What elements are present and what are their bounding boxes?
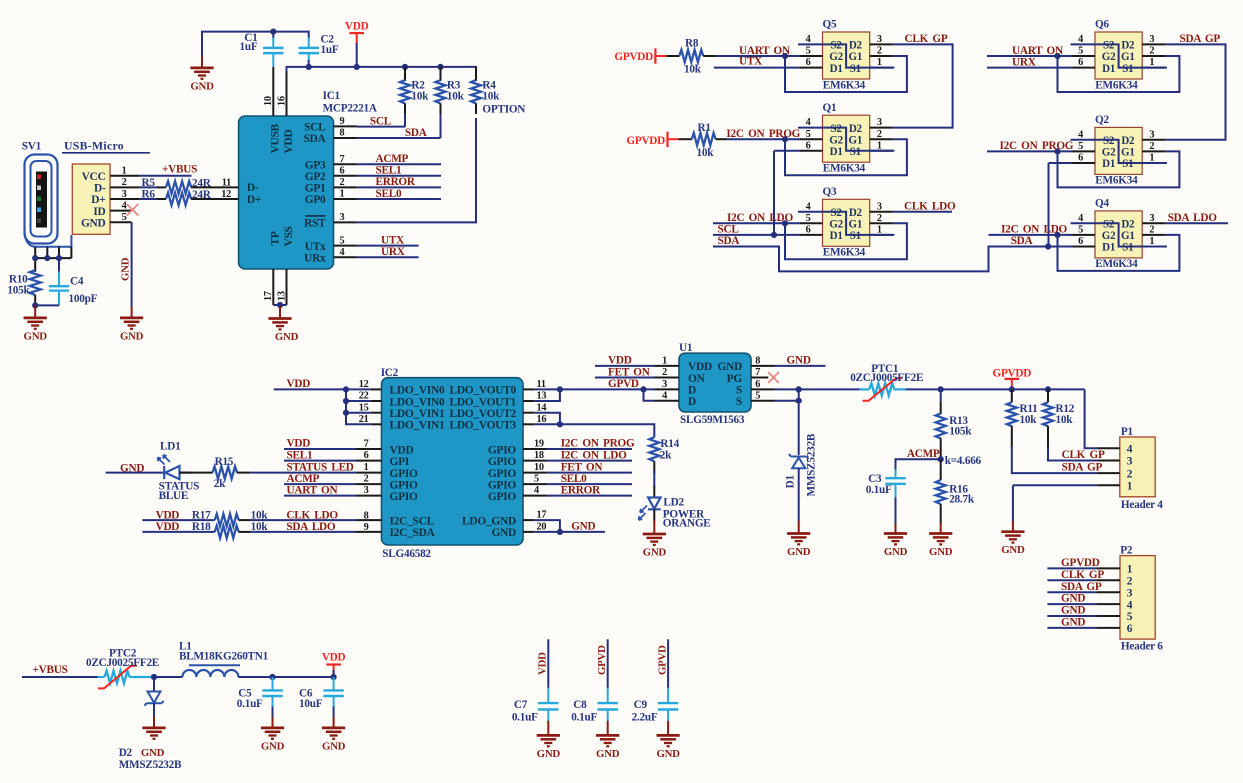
svg-text:24R: 24R	[192, 189, 212, 201]
svg-text:2: 2	[1149, 225, 1154, 236]
svg-text:SDA: SDA	[1011, 235, 1034, 247]
resistor R13	[936, 389, 973, 459]
svg-text:G2: G2	[829, 219, 843, 231]
svg-text:1: 1	[1127, 481, 1133, 493]
svg-text:11: 11	[537, 379, 546, 390]
svg-text:S1: S1	[1122, 158, 1133, 170]
wire RST to R4	[334, 118, 477, 223]
svg-text:VSS: VSS	[283, 226, 295, 246]
svg-text:S2: S2	[831, 40, 843, 52]
wire I2C ON PROG from IC2	[523, 438, 635, 450]
svg-text:LDO_VIN0: LDO_VIN0	[390, 385, 446, 397]
svg-text:UTX: UTX	[739, 56, 762, 68]
svg-text:BLUE: BLUE	[159, 490, 189, 502]
svg-text:I2C ON PROG: I2C ON PROG	[1000, 140, 1074, 152]
pin PG nc	[751, 367, 779, 383]
svg-text:P2: P2	[1120, 545, 1133, 557]
wire URX to Q6	[987, 57, 1073, 69]
wire Q6 gate tie	[1058, 56, 1180, 92]
svg-text:D1: D1	[1102, 158, 1115, 170]
node junction VIN 12	[343, 386, 349, 392]
svg-text:2k: 2k	[660, 450, 672, 462]
svg-text:Q2: Q2	[1095, 114, 1109, 126]
svg-text:6: 6	[1127, 623, 1133, 635]
svg-text:S1: S1	[850, 146, 861, 158]
svg-text:D+: D+	[91, 194, 105, 206]
wire SDA GP net	[1165, 33, 1225, 140]
svg-text:D: D	[688, 396, 696, 408]
svg-text:2: 2	[877, 46, 882, 57]
svg-text:5: 5	[122, 212, 127, 223]
svg-text:2: 2	[1127, 576, 1133, 588]
svg-text:GND: GND	[190, 80, 214, 92]
pin 1 VBUS	[110, 164, 197, 177]
svg-text:ON: ON	[688, 373, 706, 385]
svg-text:16: 16	[276, 96, 287, 106]
svg-text:k=4.666: k=4.666	[945, 455, 982, 467]
wire SCL vertical	[774, 151, 800, 235]
svg-text:SCL: SCL	[304, 122, 326, 134]
svg-text:G1: G1	[1121, 51, 1135, 63]
svg-text:VDD: VDD	[287, 378, 311, 390]
wire VDD to IC2 LDO_VIN	[274, 378, 371, 424]
svg-text:ERROR: ERROR	[376, 176, 416, 188]
svg-text:4: 4	[1078, 34, 1083, 45]
svg-text:MCP2221A: MCP2221A	[323, 103, 378, 115]
svg-text:GND: GND	[141, 747, 165, 759]
svg-text:3: 3	[1127, 456, 1133, 468]
svg-text:4: 4	[340, 247, 345, 258]
node junction Q6 gate	[1054, 53, 1060, 59]
wire GND from U1 pin8	[751, 355, 826, 367]
svg-text:4: 4	[122, 200, 127, 211]
svg-text:5: 5	[1078, 46, 1083, 57]
svg-text:R1: R1	[698, 122, 712, 134]
svg-text:10uF: 10uF	[299, 698, 323, 710]
svg-text:VUSB: VUSB	[269, 123, 281, 153]
node junction VIN 15	[343, 410, 349, 416]
wire VDD to U1 pin1	[595, 355, 679, 367]
wire Q6 source tie	[1071, 44, 1167, 67]
svg-text:GPVDD: GPVDD	[1061, 557, 1100, 569]
pin 9 SCL net	[334, 115, 406, 127]
svg-text:R14: R14	[660, 438, 679, 450]
svg-text:G2: G2	[1102, 147, 1116, 159]
svg-text:2: 2	[877, 129, 882, 140]
wire SDA GP to P1 pin2	[1012, 436, 1120, 474]
pin 16 VDD	[276, 72, 287, 116]
svg-text:S2: S2	[1103, 40, 1115, 52]
svg-text:G1: G1	[849, 219, 863, 231]
wire rail to P1 pin4	[1085, 389, 1120, 448]
wire I2C ON LDO to Q3	[713, 212, 800, 224]
svg-text:2: 2	[1149, 46, 1154, 57]
svg-text:10k: 10k	[447, 91, 465, 103]
wire VSS tie	[273, 305, 286, 309]
node junction SCL	[771, 232, 777, 238]
svg-text:FET ON: FET ON	[561, 461, 603, 473]
svg-text:6: 6	[806, 57, 811, 68]
svg-text:LDO_VIN0: LDO_VIN0	[390, 396, 446, 408]
svg-text:20: 20	[537, 522, 547, 533]
svg-text:GPIO: GPIO	[390, 479, 419, 491]
svg-text:SCL: SCL	[718, 224, 740, 236]
svg-text:10k: 10k	[251, 521, 269, 533]
svg-text:17: 17	[537, 510, 547, 521]
svg-text:G2: G2	[1102, 51, 1116, 63]
capacitor C4	[49, 258, 98, 305]
svg-text:4: 4	[1078, 129, 1083, 140]
ground C9	[656, 721, 680, 760]
svg-text:6: 6	[340, 166, 345, 177]
ground SV1	[120, 306, 144, 342]
pin 17 TP	[263, 269, 274, 305]
svg-text:SDA: SDA	[303, 133, 326, 145]
wire FET ON to U1 pin2	[595, 366, 679, 378]
svg-text:D-: D-	[247, 182, 259, 194]
svg-text:105k: 105k	[7, 284, 30, 296]
svg-text:1uF: 1uF	[240, 41, 258, 53]
svg-text:10k: 10k	[1020, 414, 1038, 426]
svg-text:10k: 10k	[697, 147, 715, 159]
svg-text:1: 1	[1149, 236, 1154, 247]
svg-text:2: 2	[340, 177, 345, 188]
svg-text:LDO_VOUT1: LDO_VOUT1	[449, 396, 516, 408]
svg-text:6: 6	[1078, 57, 1083, 68]
wire P1 pin1 to GND	[1013, 485, 1120, 522]
node junction S	[796, 386, 802, 392]
svg-text:D-: D-	[94, 183, 106, 195]
svg-text:SDA GP: SDA GP	[1061, 581, 1102, 593]
resistor R12	[1043, 389, 1075, 437]
svg-text:VDD: VDD	[390, 444, 414, 456]
node junction VIN 22	[343, 398, 349, 404]
svg-text:LDO_VOUT2: LDO_VOUT2	[449, 408, 516, 420]
svg-text:URX: URX	[1012, 57, 1036, 69]
svg-text:MMSZ5232B: MMSZ5232B	[119, 759, 182, 771]
wire GPVD to U1 pins 3 4	[644, 379, 680, 401]
svg-text:8: 8	[364, 510, 369, 521]
capacitor C7	[512, 639, 559, 723]
header P1 box	[1120, 426, 1163, 511]
pin 6 SEL1 net	[334, 165, 442, 177]
svg-text:FET ON: FET ON	[608, 366, 650, 378]
svg-text:GPIO: GPIO	[488, 468, 517, 480]
node junction R13 top	[938, 386, 944, 392]
wire VDD to IC2 pin7	[284, 438, 382, 450]
svg-text:URx: URx	[304, 252, 326, 264]
svg-text:13: 13	[276, 291, 287, 301]
svg-text:D1: D1	[785, 475, 797, 489]
ground C6	[322, 717, 346, 752]
node junction VSS	[277, 302, 283, 308]
svg-text:+VBUS: +VBUS	[33, 664, 68, 676]
svg-text:BLM18KG260TN1: BLM18KG260TN1	[179, 651, 269, 663]
svg-text:2: 2	[877, 213, 882, 224]
svg-text:1: 1	[340, 189, 345, 200]
transistor Q2 box	[1095, 114, 1142, 187]
svg-text:D1: D1	[1102, 63, 1115, 75]
svg-text:Q5: Q5	[823, 19, 837, 31]
svg-text:GND: GND	[24, 330, 48, 342]
wire GPVDD to P2 pin 1	[1047, 557, 1120, 569]
pin 1 SEL0 net	[334, 188, 442, 200]
svg-text:Header 4: Header 4	[1121, 499, 1163, 511]
wire VBUS in	[22, 664, 98, 677]
power GPVDD R1	[626, 132, 678, 148]
svg-text:D2: D2	[849, 40, 863, 52]
svg-text:G1: G1	[1121, 230, 1135, 242]
svg-text:0ZCJ0005FF2E: 0ZCJ0005FF2E	[850, 372, 923, 384]
transistor Q3 box	[823, 186, 870, 259]
wire Q5 source tie	[798, 44, 894, 67]
resistor R14	[649, 437, 679, 497]
svg-text:9: 9	[340, 116, 345, 127]
resistor R17	[142, 510, 381, 527]
svg-text:2: 2	[662, 367, 667, 378]
svg-text:GPIO: GPIO	[488, 444, 517, 456]
svg-text:1: 1	[1149, 153, 1154, 164]
svg-text:1: 1	[364, 462, 369, 473]
svg-text:R5: R5	[142, 177, 156, 189]
transistor Q6 pin stubs	[1073, 34, 1166, 68]
svg-text:1: 1	[122, 166, 127, 177]
svg-text:GP3: GP3	[305, 159, 326, 171]
svg-text:GPVD: GPVD	[596, 645, 608, 675]
capacitor C3	[866, 470, 906, 525]
svg-text:ACMP: ACMP	[287, 473, 320, 485]
svg-text:ACMP: ACMP	[376, 153, 409, 165]
svg-text:LDO_GND: LDO_GND	[462, 515, 516, 527]
svg-text:5: 5	[1078, 225, 1083, 236]
wire GND to P2 pin 5	[1047, 605, 1120, 617]
svg-text:R8: R8	[685, 37, 699, 49]
svg-text:3: 3	[1149, 213, 1154, 224]
wire CLK GP to P1 pin3	[1048, 436, 1120, 461]
wire	[202, 32, 309, 58]
svg-text:GND: GND	[322, 740, 346, 752]
svg-text:D: D	[688, 385, 696, 397]
svg-text:10: 10	[263, 96, 274, 106]
wire CLK GP to P2 pin 2	[1047, 569, 1120, 581]
transistor Q2 pin stubs	[1073, 129, 1166, 163]
pin 3 Dplus	[110, 189, 140, 200]
svg-text:I2C ON LDO: I2C ON LDO	[727, 212, 793, 224]
svg-text:GND: GND	[491, 527, 516, 539]
svg-text:I2C_SDA: I2C_SDA	[390, 527, 436, 539]
svg-text:7: 7	[755, 367, 760, 378]
svg-text:5: 5	[1127, 611, 1133, 623]
svg-text:GPIO: GPIO	[488, 456, 517, 468]
svg-text:6: 6	[364, 450, 369, 461]
pin 13 VSS	[276, 269, 287, 305]
svg-text:10k: 10k	[482, 91, 500, 103]
svg-text:EM6K34: EM6K34	[823, 163, 866, 175]
node junction C2 bottom	[306, 64, 312, 70]
svg-text:EM6K34: EM6K34	[823, 247, 866, 259]
node junction R12 top	[1045, 386, 1051, 392]
svg-text:1: 1	[877, 225, 882, 236]
wire UART ON to Q5	[715, 45, 800, 57]
svg-text:GND: GND	[537, 748, 561, 760]
svg-text:+VBUS: +VBUS	[162, 164, 197, 176]
svg-text:12: 12	[359, 379, 369, 390]
svg-text:10k: 10k	[1056, 414, 1074, 426]
svg-text:VDD: VDD	[537, 652, 549, 675]
svg-text:28.7k: 28.7k	[949, 494, 975, 506]
node junction VDD stem	[354, 64, 360, 70]
wire SCL to Q3	[713, 224, 800, 236]
power GPVDD right	[992, 368, 1031, 390]
svg-text:I2C ON LDO: I2C ON LDO	[561, 449, 627, 461]
ground D2	[141, 717, 166, 759]
svg-text:D2: D2	[849, 123, 863, 135]
svg-text:D2: D2	[1121, 40, 1135, 52]
svg-text:S1: S1	[1122, 242, 1133, 254]
svg-text:SDA GP: SDA GP	[1180, 33, 1221, 45]
wire Q2 gate tie	[1058, 151, 1180, 187]
svg-text:4: 4	[806, 201, 811, 212]
capacitor C1	[240, 32, 284, 67]
wire SDA GP to P2 pin 3	[1047, 581, 1120, 593]
svg-text:GP1: GP1	[305, 183, 326, 195]
capacitor C5	[237, 677, 283, 718]
svg-text:2: 2	[122, 177, 127, 188]
svg-text:VDD: VDD	[345, 20, 369, 32]
svg-text:GP0: GP0	[305, 194, 326, 206]
wire PTC2 to L1	[154, 676, 182, 678]
ground R10	[24, 305, 48, 342]
header P2 box	[1120, 545, 1163, 653]
svg-text:6: 6	[806, 225, 811, 236]
svg-text:Q4: Q4	[1095, 198, 1109, 210]
svg-text:OPTION: OPTION	[482, 103, 525, 115]
svg-text:4: 4	[806, 34, 811, 45]
svg-text:1: 1	[1127, 564, 1133, 576]
svg-text:D1: D1	[830, 146, 843, 158]
svg-text:4: 4	[1078, 213, 1083, 224]
svg-text:GPI: GPI	[390, 456, 410, 468]
wire CLK LDO net	[893, 200, 956, 212]
transistor Q1 box	[823, 102, 870, 175]
wire I2C ON PROG to Q1	[726, 128, 800, 140]
svg-text:GND: GND	[275, 331, 299, 343]
wire I2C ON PROG to Q2	[987, 140, 1074, 152]
svg-text:UART ON: UART ON	[287, 484, 338, 496]
svg-text:SLG59M1563: SLG59M1563	[680, 414, 745, 426]
svg-text:D2: D2	[119, 747, 133, 759]
wire ACMP to IC2 pin2	[284, 473, 382, 485]
wire CLK GP net	[893, 33, 953, 128]
svg-text:SEL0: SEL0	[561, 473, 587, 485]
svg-text:STATUS LED: STATUS LED	[287, 461, 354, 473]
wire SDA rail	[713, 235, 1073, 271]
svg-text:URX: URX	[381, 246, 405, 258]
svg-text:I2C ON PROG: I2C ON PROG	[726, 128, 800, 140]
resistor R8	[667, 37, 715, 75]
svg-text:SEL1: SEL1	[376, 165, 402, 177]
wire ERROR from IC2	[523, 484, 632, 496]
svg-text:3: 3	[877, 201, 882, 212]
svg-text:14: 14	[537, 402, 547, 413]
wire GND to P2 pin 6	[1047, 617, 1120, 629]
svg-text:4: 4	[662, 390, 667, 401]
power VDD top	[345, 20, 369, 67]
label U1	[679, 342, 745, 426]
svg-text:CLK LDO: CLK LDO	[904, 200, 956, 212]
svg-text:SEL0: SEL0	[376, 188, 402, 200]
svg-text:5: 5	[806, 129, 811, 140]
node junction D2	[151, 674, 157, 680]
wire Q4 source tie	[1071, 223, 1167, 246]
svg-text:GND: GND	[596, 748, 620, 760]
svg-text:IC1: IC1	[323, 90, 341, 102]
svg-text:7: 7	[364, 439, 369, 450]
svg-text:CLK GP: CLK GP	[1062, 449, 1105, 461]
node junction SDA Q4	[1045, 243, 1051, 249]
wire SDA LDO net	[1165, 212, 1228, 224]
pin 5 UTX net	[334, 234, 419, 246]
ground C8	[596, 721, 620, 760]
wire Q5 gate tie	[785, 56, 907, 92]
svg-text:9: 9	[364, 522, 369, 533]
label IC2	[381, 367, 432, 560]
svg-text:CLK GP: CLK GP	[905, 33, 948, 45]
ground P1	[1001, 521, 1025, 556]
wire Q1 source tie	[798, 128, 894, 151]
svg-text:8: 8	[340, 128, 345, 139]
svg-text:3: 3	[1149, 34, 1154, 45]
svg-text:2.2uF: 2.2uF	[632, 712, 658, 724]
capacitor C8	[571, 639, 618, 723]
svg-text:6: 6	[1078, 236, 1083, 247]
svg-text:1uF: 1uF	[321, 44, 339, 56]
node junction comb 2	[44, 255, 50, 261]
svg-text:GPVD: GPVD	[608, 378, 639, 390]
svg-text:Q1: Q1	[823, 102, 837, 114]
svg-text:S: S	[736, 385, 742, 397]
svg-text:D1: D1	[1102, 242, 1115, 254]
svg-text:ORANGE: ORANGE	[663, 518, 711, 530]
connector SV1 shell leg	[25, 229, 72, 247]
svg-text:0ZCJ0025FF2E: 0ZCJ0025FF2E	[86, 657, 159, 669]
node junction pin20	[557, 529, 563, 535]
svg-text:1: 1	[877, 140, 882, 151]
svg-text:S2: S2	[1103, 219, 1115, 231]
power GPVDD R8	[614, 48, 666, 64]
diode D2 MMSZ5232B	[119, 677, 182, 771]
svg-text:PG: PG	[727, 373, 743, 385]
ground LD2	[643, 520, 667, 559]
pin 4 URX net	[334, 246, 419, 258]
pin 8 SDA net	[334, 127, 441, 139]
svg-text:5: 5	[806, 213, 811, 224]
resistor R18	[142, 521, 381, 538]
svg-text:S1: S1	[1122, 63, 1133, 75]
wire L1 to VDD	[238, 676, 333, 678]
svg-text:R17: R17	[192, 510, 211, 522]
svg-text:Header 6: Header 6	[1121, 641, 1163, 653]
svg-text:6: 6	[755, 379, 760, 390]
svg-text:U1: U1	[679, 342, 693, 354]
node junction Q3 gate	[782, 220, 788, 226]
svg-text:GND: GND	[120, 257, 132, 281]
svg-text:VDD: VDD	[322, 652, 346, 664]
svg-text:EM6K34: EM6K34	[1095, 258, 1138, 270]
svg-text:D+: D+	[247, 194, 261, 206]
wire U1 S out	[751, 379, 860, 390]
svg-text:10k: 10k	[411, 91, 429, 103]
